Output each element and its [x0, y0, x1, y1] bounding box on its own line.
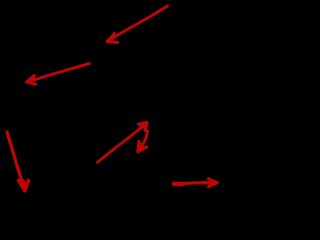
black background	[0, 0, 268, 213]
arrow 3: left side pointing down	[7, 132, 29, 191]
arrow 2: middle-left pointing down-left	[27, 64, 90, 85]
arrow 5: short curved arrow pointing down	[138, 131, 148, 152]
arrow 1: from top-right down-left	[107, 6, 167, 43]
arrow 6: bottom horizontal pointing right	[174, 179, 217, 187]
arrow 4: center pointing up-right	[97, 123, 147, 163]
